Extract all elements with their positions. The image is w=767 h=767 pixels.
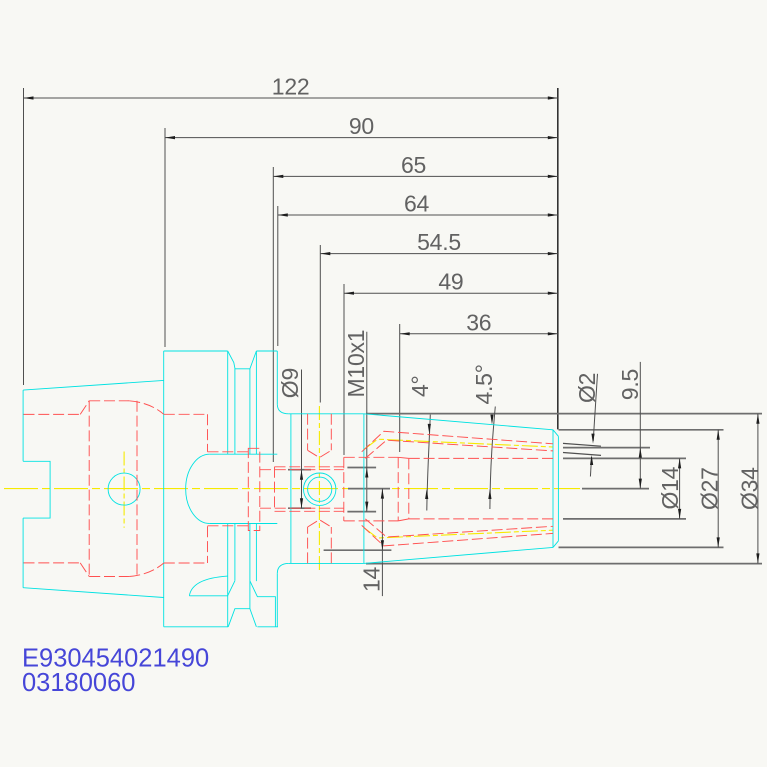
flange bottom edge [164,626,278,628]
svg-text:90: 90 [349,113,374,139]
HSK shank taper bottom [23,588,164,598]
svg-text:65: 65 [401,152,426,178]
svg-text:14: 14 [358,566,384,592]
V-groove bottom [228,609,256,627]
cross hole inner circle [308,477,332,501]
HSK face notch [23,461,50,518]
bore chamfer top [398,457,409,458]
body left face [290,414,292,564]
dimension 4deg angle leader [407,376,433,511]
svg-text:Ø27: Ø27 [696,467,722,510]
balance hole top [308,414,332,458]
HSK cavity bottom [24,562,81,564]
pocket step face [343,457,345,521]
bottom slot floor [189,595,227,597]
pilot hole dia9 top [260,469,344,471]
bore step face [408,458,410,519]
rear slot box [248,448,259,530]
svg-text:122: 122 [272,74,310,100]
nose chamfer bottom [553,541,558,548]
dimension 9.5 vertical leader [563,362,650,489]
HSK cavity arc bottom [129,563,164,577]
dimension 49 horizontal [344,269,558,455]
nose taper top [364,414,553,430]
dimension 65 horizontal [273,152,558,462]
dimension 122 horizontal [24,74,558,386]
dimension 14 vertical [324,489,392,596]
dimension 54.5 horizontal [320,229,558,402]
coolant hole bottom wall 1 [362,525,553,546]
bottom slot cut edge [228,581,235,596]
nose chamfer edge [552,430,554,548]
nose end face [557,436,559,541]
hidden slot left edge [207,414,209,563]
groove edge line 3 [249,369,251,609]
HSK cavity face 2 [136,401,138,577]
dimension 64 horizontal [278,191,558,347]
groove edge line 4 [255,351,257,581]
HSK center hole circle [108,473,140,505]
thread M10 crest bottom [275,510,344,512]
HSK cavity arc top [129,401,164,415]
HSK cavity bore top [89,400,129,402]
dimension dia9 vertical leader [277,368,311,508]
HSK cavity chamfer bottom [80,563,89,577]
svg-text:Ø34: Ø34 [737,467,763,510]
svg-text:Ø9: Ø9 [277,368,303,398]
dimension dia14 vertical right [563,458,686,519]
svg-text:54.5: 54.5 [417,229,461,255]
bottom slot arc [189,576,227,596]
centerline HSK hole vertical [123,452,125,528]
groove edge line 1 [227,351,229,627]
drive slot dome [186,454,210,523]
svg-text:Ø14: Ø14 [657,466,683,509]
HSK cavity chamfer top [80,401,89,415]
flange left face [163,351,165,627]
HSK cavity top [24,413,81,415]
drive slot bottom edge [210,523,278,525]
centerline coolant hole bottom [364,527,554,538]
coolant hole bottom wall 2 [365,519,553,537]
centerline coolant hole top [364,439,554,450]
V-groove top [228,351,257,369]
dimension 4.5deg angle leader [471,364,497,509]
flange bore top [164,413,208,415]
dimension 90 horizontal [165,113,558,347]
bore dia14 bottom [409,518,553,520]
svg-text:03180060: 03180060 [22,669,135,697]
dimension dia2 leader [563,373,601,477]
taper start face [363,414,365,564]
fillet top [277,404,289,413]
extension line right (shared) [557,88,559,429]
groove edge line 2 [234,369,236,581]
dimension 36 horizontal [400,309,558,452]
HSK shank taper top [23,380,164,390]
dimension M10x1 vertical leader [343,330,376,512]
dimension dia27 vertical right [559,430,724,548]
svg-text:4.5°: 4.5° [471,364,497,404]
coolant hole top wall 1 [362,431,553,452]
hidden slot bottom [208,525,249,527]
pocket bore top [344,456,398,458]
pocket bore bottom [344,520,398,522]
centerline main axis [4,488,580,490]
svg-text:M10x1: M10x1 [343,330,369,398]
balance hole bottom [308,520,332,564]
nose taper bottom [364,547,553,563]
bottom right slot [250,581,275,627]
body bottom edge [289,562,364,564]
centerline body cross hole vertical [318,406,320,571]
svg-text:64: 64 [404,191,430,217]
body top edge [289,413,364,415]
coolant hole top wall 2 [365,440,553,458]
thread M10 crest top [275,466,344,468]
svg-text:Ø2: Ø2 [574,373,600,403]
flange top edge [164,350,278,352]
pilot hole dia9 bottom [260,507,344,509]
dimension dia34 vertical right [366,414,763,564]
pocket end face [397,457,399,521]
HSK cavity face 1 [88,401,90,577]
cross hole outer circle [304,473,336,505]
drive slot top edge [210,453,278,455]
hidden slot top [208,451,249,453]
thread start face [274,467,276,512]
svg-text:9.5: 9.5 [617,369,643,400]
bore dia14 top [409,457,553,459]
fillet bottom [277,563,289,573]
HSK cavity bore bottom [89,576,129,578]
svg-text:36: 36 [466,309,491,335]
bore chamfer bottom [398,519,409,521]
svg-text:49: 49 [438,269,463,295]
nose chamfer top [553,430,558,437]
svg-text:4°: 4° [407,376,433,398]
flange bore bottom [164,562,208,564]
flange right face [276,351,278,627]
HSK shank left face [22,390,24,588]
